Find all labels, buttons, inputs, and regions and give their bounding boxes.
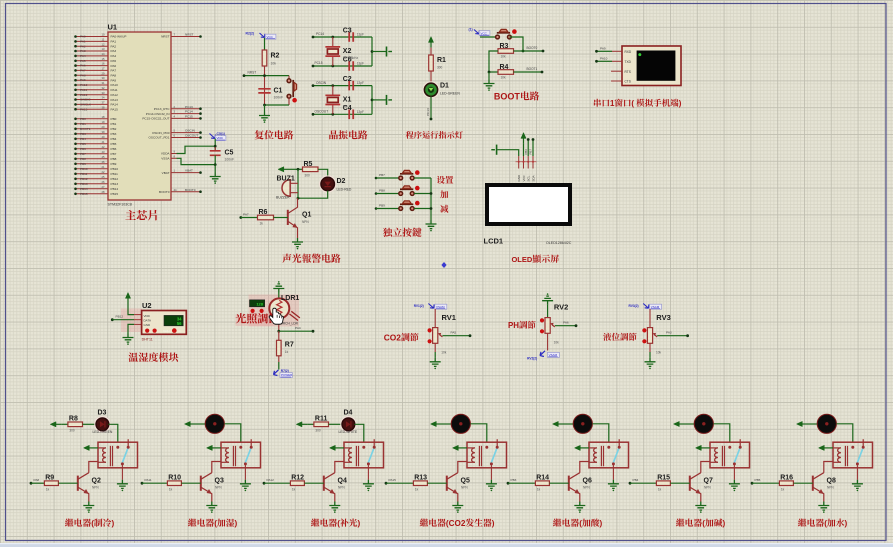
- label 设置: [437, 176, 445, 184]
- svg-text:PB8: PB8: [80, 157, 86, 161]
- svg-text:21: 21: [102, 165, 105, 169]
- wire OLED SCL pin to PB6: [524, 138, 530, 156]
- svg-text:PA0: PA0: [80, 35, 86, 39]
- svg-text:R14: R14: [536, 474, 549, 481]
- svg-text:VSAM: VSAM: [436, 305, 445, 309]
- svg-text:): ): [679, 99, 682, 108]
- transistor Q3 NPN: [201, 473, 224, 502]
- wire R5 to D2: [318, 169, 328, 177]
- wire relay common to ground of unit Q4: [367, 464, 369, 480]
- wire right side of X1: [371, 86, 386, 115]
- svg-text:32.768kHz: 32.768kHz: [343, 56, 359, 60]
- hand cursor: [269, 308, 283, 324]
- svg-text:PA12: PA12: [267, 478, 275, 482]
- svg-text:27: 27: [102, 185, 105, 189]
- svg-text:NPN: NPN: [215, 486, 222, 490]
- wire OLED SDA pin to PB7: [529, 138, 535, 156]
- svg-text:): ): [492, 519, 495, 528]
- wire RV2 to power terminal below: [547, 333, 549, 350]
- svg-text:PA8: PA8: [111, 74, 117, 78]
- ground below transistor Q8: [818, 502, 829, 513]
- svg-text:(: (: [91, 519, 94, 528]
- svg-text:VCC: VCC: [481, 31, 488, 35]
- wire + pin PC15-OSC32_OUT (right): [142, 115, 201, 121]
- title label 程序运行指示灯: [406, 131, 414, 139]
- title label 继电器(加湿): [188, 519, 196, 527]
- svg-text:BUZZER: BUZZER: [276, 195, 290, 199]
- svg-text:PA10: PA10: [80, 83, 88, 87]
- module U2 DHT11 body: [142, 301, 187, 342]
- title label 光照调节: [236, 313, 246, 323]
- power terminal of OLED VCC: [521, 133, 526, 144]
- transistor Q8 NPN: [813, 473, 836, 502]
- resistor R6 1k with PA7 input: [239, 209, 287, 226]
- svg-text:CO2: CO2: [384, 333, 402, 343]
- LED D1 LED-GREEN: [422, 81, 460, 98]
- svg-text:NPN: NPN: [583, 486, 590, 490]
- wire right side of X2: [371, 37, 386, 66]
- power arrow at relay coil of unit Q4: [330, 445, 345, 450]
- ground below relay of unit Q5: [486, 480, 497, 491]
- svg-text:32: 32: [102, 86, 105, 90]
- wire OSCOUT net (crystal X1 bottom): [312, 110, 372, 116]
- svg-text:BOOT0: BOOT0: [527, 46, 538, 50]
- svg-text:OSCIN: OSCIN: [316, 81, 327, 85]
- svg-text:LED-GREEN: LED-GREEN: [93, 430, 113, 434]
- svg-text:PA12: PA12: [80, 93, 88, 97]
- svg-text:25: 25: [102, 175, 105, 179]
- wire LDR1 to PA4 node: [277, 318, 314, 332]
- svg-text:RV2(2): RV2(2): [527, 356, 537, 360]
- svg-text:R9: R9: [45, 474, 54, 481]
- svg-text:VSAM: VSAM: [651, 305, 660, 309]
- svg-text:(: (: [824, 519, 827, 528]
- title label 复位电路: [255, 130, 264, 139]
- capacitor C4 13pF: [343, 105, 364, 119]
- relay switch of unit Q7: [728, 439, 741, 465]
- ground below RV1: [430, 358, 441, 369]
- svg-text:Q1: Q1: [302, 212, 311, 219]
- title label 液位调节: [603, 333, 611, 341]
- power terminal below R7 (blue): [274, 369, 294, 378]
- svg-text:R3: R3: [500, 43, 509, 50]
- wire power to motor of unit Q7: [685, 423, 695, 425]
- wire OSCIN net (crystal X1 top): [312, 81, 372, 87]
- wire PC14 net (crystal X2 top): [312, 32, 372, 38]
- svg-text:31: 31: [102, 81, 105, 85]
- title label 主芯片: [125, 210, 136, 220]
- svg-text:PB8: PB8: [111, 157, 117, 161]
- ground terminal of X2 circuit: [387, 47, 393, 57]
- ground below transistor Q6: [574, 502, 585, 513]
- wire + pin PB3 (left pin 39): [74, 130, 116, 136]
- svg-text:OSCIN_PD0: OSCIN_PD0: [152, 131, 170, 135]
- power arrow at relay coil of unit Q2: [84, 445, 99, 450]
- svg-text:PB5: PB5: [80, 142, 86, 146]
- svg-text:40: 40: [102, 135, 105, 139]
- svg-text:128: 128: [256, 301, 263, 306]
- wire + pin PA12 (left pin 33): [74, 91, 118, 97]
- svg-text:14: 14: [102, 52, 105, 56]
- svg-text:OSCOUT: OSCOUT: [185, 134, 198, 138]
- svg-text:DHT11: DHT11: [142, 338, 153, 342]
- wire motor to relay of unit Q3: [225, 424, 241, 442]
- svg-text:PC14-OSC32_IN: PC14-OSC32_IN: [146, 112, 170, 116]
- svg-text:PH: PH: [508, 321, 519, 330]
- wire power to U2 VDD: [128, 304, 142, 315]
- svg-text:X2: X2: [343, 48, 352, 55]
- wire motor to relay of unit Q6: [593, 424, 609, 442]
- power arrow at relay coil of unit Q7: [696, 445, 711, 450]
- svg-text:PB6: PB6: [80, 147, 86, 151]
- svg-text:300: 300: [315, 429, 321, 433]
- svg-text:LDR1: LDR1: [281, 295, 299, 302]
- svg-text:38: 38: [102, 105, 105, 109]
- ground terminal of X1 circuit: [387, 95, 393, 105]
- svg-text:PB3: PB3: [511, 478, 517, 482]
- svg-text:PA5: PA5: [451, 330, 457, 334]
- crystal X1 8M: [325, 86, 351, 115]
- wire C5 bottom to ground: [214, 155, 217, 172]
- svg-text:44: 44: [174, 188, 177, 192]
- svg-text:RV3(2): RV3(2): [629, 304, 639, 308]
- svg-text:PA3: PA3: [111, 49, 117, 53]
- wire + pin PA10 (left pin 31): [74, 81, 118, 87]
- wire PC15 net (crystal X2 bottom): [312, 61, 372, 67]
- svg-text:LED-WHITE: LED-WHITE: [339, 430, 358, 434]
- svg-text:PA14: PA14: [111, 103, 119, 107]
- svg-text:300: 300: [69, 429, 75, 433]
- pin VSSA wire: [161, 154, 215, 164]
- svg-text:PA7: PA7: [243, 212, 249, 216]
- wire power to motor of unit Q6: [564, 423, 574, 425]
- svg-text:1k: 1k: [260, 222, 264, 226]
- wire OLED GND pin: [497, 150, 518, 156]
- svg-text:PA15: PA15: [111, 108, 119, 112]
- transistor Q6 NPN: [569, 473, 592, 502]
- svg-text:R11: R11: [315, 416, 328, 423]
- power terminal above U2: [125, 293, 130, 304]
- wire + pin PA8 (left pin 29): [74, 71, 116, 77]
- wire R1 to D1: [430, 71, 432, 83]
- svg-text:PC13_RTC: PC13_RTC: [154, 107, 171, 111]
- wire + pin PB5 (left pin 41): [74, 140, 116, 146]
- title label 继电器(CO2发生器): [420, 519, 428, 527]
- power terminal above RV3 (blue): [629, 304, 662, 310]
- svg-text:1k: 1k: [415, 487, 419, 491]
- svg-text:PA15: PA15: [80, 107, 88, 111]
- svg-text:PC14: PC14: [185, 110, 193, 114]
- resistor R4 10k: [498, 64, 514, 80]
- svg-text:R8: R8: [69, 416, 78, 423]
- svg-text:PB0: PB0: [111, 117, 117, 121]
- node NRST horizontal wire: [243, 70, 289, 77]
- svg-text:D1: D1: [440, 83, 449, 90]
- wire relay common to ground of unit Q6: [612, 464, 614, 480]
- svg-text:10k: 10k: [554, 341, 560, 345]
- svg-text:PC15-OSC32_OUT: PC15-OSC32_OUT: [142, 117, 169, 121]
- wire R2 to NRST node: [264, 66, 266, 105]
- svg-text:PB8: PB8: [379, 189, 385, 193]
- motor load of relay unit Q7: [694, 414, 713, 433]
- wire motor to relay of unit Q8: [837, 424, 853, 442]
- ground of BOOT circuit: [488, 72, 490, 80]
- svg-text:PB6: PB6: [524, 149, 528, 155]
- title label 继电器(补光): [311, 519, 319, 527]
- svg-text:): ): [235, 519, 238, 528]
- wire + pin PA1 (left pin 11): [74, 38, 116, 44]
- svg-text:BOOT1: BOOT1: [527, 67, 538, 71]
- wire + pin PB11 (left pin 22): [74, 170, 118, 176]
- svg-text:46: 46: [102, 160, 105, 164]
- svg-text:PB4: PB4: [111, 137, 117, 141]
- svg-text:PB4: PB4: [80, 137, 86, 141]
- relay switch of unit Q5: [485, 439, 498, 465]
- svg-text:10k: 10k: [271, 62, 277, 66]
- svg-text:PB7: PB7: [529, 149, 533, 155]
- ground below relay of unit Q3: [240, 480, 251, 491]
- relay box of unit Q7: [710, 442, 750, 468]
- resistor R7 1k: [277, 340, 294, 356]
- svg-text:1k: 1k: [781, 487, 785, 491]
- wire + pin PB15 (left pin 28): [74, 190, 118, 196]
- svg-text:1: 1: [610, 99, 615, 108]
- title label 继电器(加碱): [676, 519, 684, 527]
- ground below transistor Q5: [452, 502, 463, 513]
- OLED pin stubs and pin names: [516, 156, 537, 182]
- ground below relay of unit Q6: [608, 480, 619, 491]
- motor load of relay unit Q5: [451, 414, 470, 433]
- wire wiper of RV1 to PA5: [442, 330, 471, 337]
- svg-text:(: (: [579, 519, 582, 528]
- wire R3 left down to R4: [488, 51, 498, 73]
- wire D3 to relay: [108, 424, 117, 442]
- svg-text:VDD: VDD: [144, 314, 151, 318]
- wire OLED VCC pin: [523, 144, 525, 156]
- svg-text:41: 41: [102, 140, 105, 144]
- svg-text:PA6: PA6: [563, 320, 569, 324]
- svg-text:BOOT1: BOOT1: [80, 127, 91, 131]
- svg-text:C1: C1: [274, 88, 283, 95]
- resistor R2 10k: [262, 50, 279, 66]
- svg-text:NRST: NRST: [248, 70, 257, 74]
- ground terminal above LDR1 (inverted): [273, 281, 284, 292]
- svg-text:BOOT: BOOT: [494, 92, 521, 102]
- transistor Q2 NPN: [78, 473, 101, 502]
- ground below RV3: [645, 358, 656, 369]
- svg-text:PA1: PA1: [80, 40, 86, 44]
- transistor Q4 NPN: [324, 473, 347, 502]
- svg-text:LED-GREEN: LED-GREEN: [440, 92, 460, 96]
- svg-text:VBAT: VBAT: [162, 171, 170, 175]
- relay coil of unit Q2: [98, 446, 113, 466]
- wire PB12 to U2 DATA: [111, 315, 142, 321]
- wire relay coil to collector of unit Q8: [824, 462, 833, 473]
- push button row PB8: [375, 186, 431, 196]
- wire RV3 to ground: [649, 343, 651, 358]
- svg-text:R1: R1: [437, 57, 446, 64]
- transistor Q1 NPN: [288, 198, 312, 238]
- wire + pin PA6 (left pin 16): [74, 62, 116, 68]
- wire + pin PB14 (left pin 27): [74, 185, 118, 191]
- LED D4 LED-WHITE: [329, 410, 358, 434]
- svg-text:PB1: PB1: [111, 122, 117, 126]
- relay coil of unit Q7: [710, 446, 725, 466]
- svg-text:10k: 10k: [656, 351, 662, 355]
- svg-text:Q5: Q5: [461, 477, 470, 484]
- power arrow at relay coil of unit Q5: [453, 445, 468, 450]
- relay box of unit Q5: [467, 442, 507, 468]
- svg-text:(: (: [631, 99, 634, 108]
- svg-text:PA10: PA10: [111, 83, 119, 87]
- svg-text:30: 30: [102, 76, 105, 80]
- wire R7 to power terminal: [278, 356, 280, 370]
- wire bottom of reset circuit: [263, 104, 289, 107]
- svg-text:C3: C3: [343, 28, 352, 35]
- svg-text:%RH: %RH: [163, 329, 170, 333]
- wire relay common to ground of unit Q8: [856, 464, 858, 480]
- pin VDDA wire: [161, 146, 215, 156]
- svg-text:PA3: PA3: [80, 49, 86, 53]
- svg-text:1k: 1k: [285, 350, 289, 354]
- svg-text:STM32F103C8: STM32F103C8: [108, 203, 132, 207]
- bottom window strip: [0, 543, 893, 547]
- power terminal above R1: [428, 37, 433, 48]
- svg-text:PB1: PB1: [80, 122, 86, 126]
- svg-text:GND: GND: [144, 323, 152, 327]
- svg-text:): ): [358, 519, 361, 528]
- wire power to motor of unit Q5: [442, 423, 452, 425]
- wire wiper of RV2 to PA6: [555, 320, 578, 327]
- capacitor C3 13pF: [343, 28, 364, 42]
- svg-text:PB5: PB5: [755, 478, 761, 482]
- svg-text:PA12: PA12: [111, 93, 119, 97]
- ground of independent keys: [426, 220, 437, 231]
- wire U2 GND to ground: [128, 324, 142, 333]
- svg-text:39: 39: [102, 130, 105, 134]
- wire + pin PB10 (left pin 21): [74, 165, 118, 171]
- relay coil of unit Q6: [589, 446, 604, 466]
- wire power to R2: [264, 38, 266, 50]
- wire relay common to ground of unit Q7: [733, 464, 735, 480]
- svg-text:OSCOUT: OSCOUT: [315, 110, 329, 114]
- LED D3 LED-GREEN: [83, 410, 113, 434]
- svg-text:PA9: PA9: [111, 78, 117, 82]
- svg-text:RV1: RV1: [442, 313, 456, 322]
- label 减: [440, 205, 448, 213]
- wire power to motor of unit Q8: [808, 423, 818, 425]
- svg-text:Q3: Q3: [215, 477, 224, 484]
- svg-text:PB6: PB6: [111, 147, 117, 151]
- wire + pin PB0 (left pin 18): [74, 115, 116, 121]
- svg-text:PA1: PA1: [111, 40, 117, 44]
- motor load of relay unit Q8: [817, 414, 836, 433]
- capacitor C6 13pF: [343, 57, 364, 71]
- svg-text:RXD: RXD: [625, 50, 632, 54]
- wire + pin PB7 (left pin 43): [74, 150, 116, 156]
- svg-text:VDDA: VDDA: [161, 152, 171, 156]
- wire PA9 to RXD: [595, 46, 622, 52]
- relay box of unit Q4: [344, 442, 384, 468]
- resistor R5 300: [303, 161, 319, 178]
- svg-text:PA0-WKUP: PA0-WKUP: [111, 35, 127, 39]
- svg-text:PA6: PA6: [80, 64, 86, 68]
- svg-text:45: 45: [102, 155, 105, 159]
- svg-text:OSCIN: OSCIN: [185, 129, 195, 133]
- svg-text:PA4: PA4: [295, 326, 301, 330]
- push button of BOOT circuit: [496, 29, 517, 39]
- svg-text:42: 42: [102, 145, 105, 149]
- ground terminal above RV2 (inverted): [542, 293, 553, 304]
- svg-text:PB15: PB15: [111, 192, 119, 196]
- wire PA4 node to R7: [278, 331, 280, 340]
- wire D1 to PC13 terminal: [426, 96, 433, 120]
- svg-text:NPN: NPN: [827, 486, 834, 490]
- svg-text:1k: 1k: [658, 487, 662, 491]
- relay coil of unit Q8: [833, 446, 848, 466]
- resistor R15 1k with PB4 input: [629, 474, 690, 491]
- svg-text:POWER: POWER: [281, 373, 293, 377]
- wire relay common to ground of unit Q2: [121, 464, 123, 480]
- power terminal of relay unit Q5 (left arrow): [431, 421, 442, 426]
- title label 声光报警电路: [282, 254, 291, 263]
- svg-text:(: (: [337, 519, 340, 528]
- title label 继电器(加酸): [553, 519, 561, 527]
- svg-text:26: 26: [102, 180, 105, 184]
- power terminal for C5 (blue label): [210, 132, 226, 140]
- svg-text:34: 34: [102, 96, 105, 100]
- wire power to R1: [430, 48, 432, 55]
- title label 温湿度模块: [128, 352, 138, 361]
- svg-text:PB14: PB14: [111, 187, 119, 191]
- svg-text:PB13: PB13: [111, 182, 119, 186]
- svg-text:R2(2): R2(2): [246, 32, 254, 36]
- wire relay coil to collector of unit Q3: [212, 462, 221, 473]
- wire + pin PA7 (left pin 17): [74, 67, 116, 73]
- capacitor C1 100nF: [258, 88, 283, 100]
- svg-text:PA5: PA5: [111, 59, 117, 63]
- ground below relay of unit Q4: [363, 480, 374, 491]
- svg-text:PA9: PA9: [600, 46, 606, 50]
- svg-text:PB10: PB10: [80, 167, 88, 171]
- resistor R16 1k with PB5 input: [751, 474, 813, 491]
- push button row PB7: [375, 170, 431, 180]
- power terminal above R2 (blue): [246, 32, 276, 40]
- wire + pin PA14 (left pin 37): [74, 101, 118, 107]
- svg-text:SWDIO: SWDIO: [80, 98, 91, 102]
- svg-text:): ): [845, 519, 848, 528]
- title label 晶振电路: [329, 130, 338, 139]
- svg-text:PA11: PA11: [111, 88, 118, 92]
- wire power to RV1: [434, 309, 436, 328]
- svg-text:1k: 1k: [169, 487, 173, 491]
- svg-text:PA7: PA7: [111, 69, 117, 73]
- svg-text:8M: 8M: [343, 104, 348, 108]
- svg-text:PB7: PB7: [379, 173, 385, 177]
- resistor R12 1k with PA12 input: [263, 474, 324, 491]
- svg-text:R13: R13: [414, 474, 427, 481]
- svg-text:17: 17: [102, 67, 105, 71]
- svg-text:SDA: SDA: [531, 175, 535, 181]
- wire + pin PA2 (left pin 12): [74, 42, 116, 48]
- svg-text:NPN: NPN: [92, 486, 99, 490]
- capacitor C2 13pF: [343, 76, 364, 90]
- svg-text:R7: R7: [285, 342, 294, 349]
- svg-text:100nF: 100nF: [225, 158, 235, 162]
- svg-text:PA13: PA13: [111, 98, 119, 102]
- power terminal of relay unit Q8 (left arrow): [797, 421, 808, 426]
- origin marker (blue diamond): [441, 262, 446, 268]
